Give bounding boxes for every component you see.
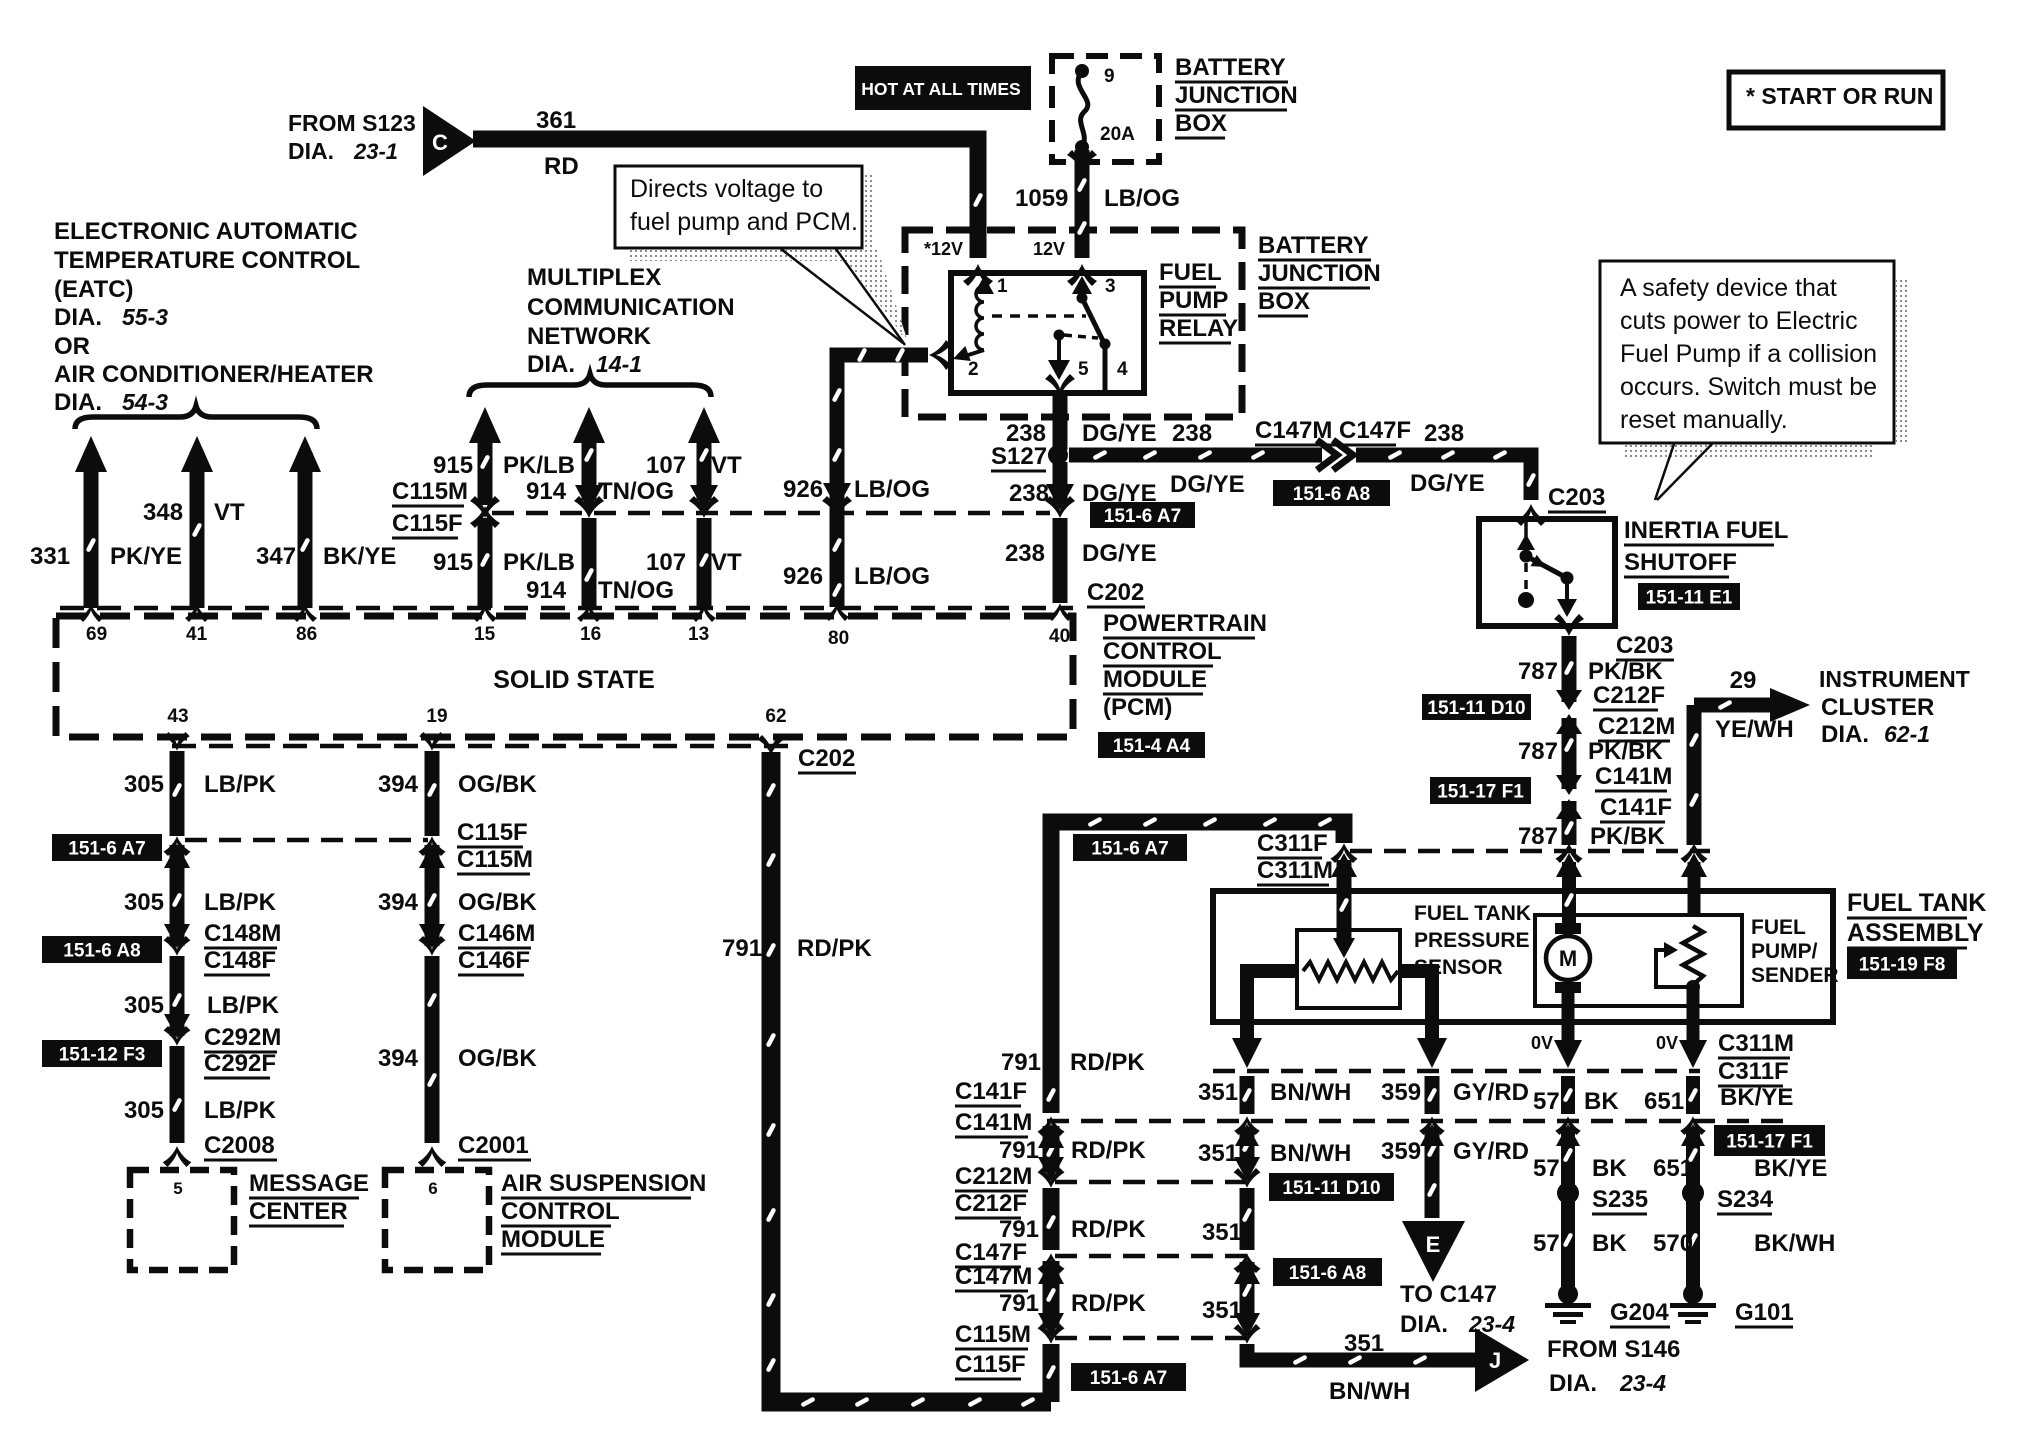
svg-text:0V: 0V [1531, 1033, 1553, 1053]
svg-text:926: 926 [783, 563, 823, 590]
svg-text:J: J [1489, 1348, 1501, 1373]
svg-text:151-6 A8: 151-6 A8 [1289, 1263, 1366, 1284]
svg-text:DG/YE: DG/YE [1410, 470, 1485, 497]
svg-text:151-17 F1: 151-17 F1 [1437, 781, 1524, 802]
svg-text:LB/PK: LB/PK [204, 889, 277, 916]
svg-text:CENTER: CENTER [249, 1198, 348, 1225]
svg-text:BN/WH: BN/WH [1270, 1079, 1351, 1106]
svg-text:BK: BK [1592, 1155, 1627, 1182]
svg-text:16: 16 [580, 624, 601, 645]
svg-text:C203: C203 [1616, 632, 1673, 659]
svg-text:C148M: C148M [204, 920, 281, 947]
svg-text:BK/YE: BK/YE [1720, 1084, 1793, 1111]
svg-text:107: 107 [646, 549, 686, 576]
svg-text:C148F: C148F [204, 947, 276, 974]
svg-text:RD/PK: RD/PK [1070, 1049, 1145, 1076]
svg-text:DIA.: DIA. [54, 389, 102, 416]
svg-text:BK/YE: BK/YE [323, 543, 396, 570]
svg-text:DIA.: DIA. [288, 138, 334, 164]
svg-text:23-4: 23-4 [1619, 1370, 1666, 1396]
svg-text:HOT AT ALL TIMES: HOT AT ALL TIMES [861, 79, 1020, 99]
svg-text:TEMPERATURE CONTROL: TEMPERATURE CONTROL [54, 247, 360, 274]
svg-text:238: 238 [1172, 420, 1212, 447]
svg-text:G204: G204 [1610, 1299, 1669, 1326]
svg-text:FROM S123: FROM S123 [288, 110, 416, 136]
svg-text:C147F: C147F [955, 1239, 1027, 1266]
svg-text:C141F: C141F [955, 1078, 1027, 1105]
svg-text:S127: S127 [991, 443, 1047, 470]
svg-text:C115M: C115M [392, 478, 468, 505]
svg-text:SENDER: SENDER [1751, 964, 1839, 987]
svg-text:C311M: C311M [1257, 857, 1333, 884]
svg-text:fuel pump and PCM.: fuel pump and PCM. [630, 208, 858, 236]
svg-text:S235: S235 [1592, 1186, 1648, 1213]
svg-text:Directs voltage to: Directs voltage to [630, 175, 823, 203]
svg-text:351: 351 [1202, 1297, 1242, 1324]
svg-text:151-11 E1: 151-11 E1 [1646, 587, 1733, 608]
svg-text:LB/OG: LB/OG [1104, 185, 1180, 212]
svg-text:FUEL: FUEL [1159, 259, 1222, 286]
svg-text:1: 1 [997, 276, 1008, 297]
svg-text:BOX: BOX [1258, 288, 1310, 315]
svg-text:359: 359 [1381, 1138, 1421, 1165]
svg-text:DIA.: DIA. [54, 304, 102, 331]
svg-text:DIA.: DIA. [1400, 1311, 1448, 1338]
svg-text:351: 351 [1198, 1140, 1238, 1167]
svg-text:C115F: C115F [457, 819, 528, 846]
svg-text:AIR SUSPENSION: AIR SUSPENSION [501, 1170, 706, 1197]
svg-text:M: M [1559, 946, 1577, 971]
svg-text:VT: VT [711, 549, 742, 576]
svg-text:151-11 D10: 151-11 D10 [1427, 698, 1525, 719]
svg-text:40: 40 [1049, 626, 1070, 647]
svg-text:43: 43 [167, 706, 188, 727]
svg-text:C212F: C212F [955, 1190, 1027, 1217]
svg-text:914: 914 [526, 478, 567, 505]
svg-text:C311F: C311F [1718, 1058, 1789, 1085]
svg-text:BK: BK [1584, 1088, 1619, 1115]
svg-text:PRESSURE: PRESSURE [1414, 929, 1530, 952]
svg-text:80: 80 [828, 628, 849, 649]
svg-text:305: 305 [124, 1097, 164, 1124]
svg-text:cuts power to Electric: cuts power to Electric [1620, 307, 1858, 335]
svg-text:JUNCTION: JUNCTION [1175, 82, 1298, 109]
svg-text:reset manually.: reset manually. [1620, 406, 1788, 434]
svg-text:FUEL TANK: FUEL TANK [1414, 902, 1531, 925]
svg-text:A safety device that: A safety device that [1620, 274, 1837, 302]
svg-text:926: 926 [783, 476, 823, 503]
svg-text:238: 238 [1424, 420, 1464, 447]
svg-text:29: 29 [1730, 667, 1757, 694]
svg-text:C202: C202 [798, 745, 855, 772]
svg-text:62: 62 [765, 706, 786, 727]
svg-text:151-6 A8: 151-6 A8 [1293, 484, 1370, 505]
svg-text:9: 9 [1104, 66, 1115, 87]
svg-text:INSTRUMENT: INSTRUMENT [1819, 666, 1970, 692]
svg-text:JUNCTION: JUNCTION [1258, 260, 1381, 287]
svg-text:C: C [432, 130, 448, 155]
svg-text:DG/YE: DG/YE [1082, 420, 1157, 447]
svg-text:238: 238 [1009, 480, 1049, 507]
svg-text:151-11 D10: 151-11 D10 [1282, 1178, 1380, 1199]
svg-text:FROM S146: FROM S146 [1547, 1336, 1680, 1363]
svg-text:C212M: C212M [1598, 713, 1675, 740]
svg-text:TN/OG: TN/OG [598, 577, 674, 604]
svg-text:C292M: C292M [204, 1024, 281, 1051]
svg-text:15: 15 [474, 624, 496, 645]
svg-text:394: 394 [378, 889, 419, 916]
svg-text:C202: C202 [1087, 579, 1144, 606]
svg-text:PK/YE: PK/YE [110, 543, 182, 570]
svg-text:331: 331 [30, 543, 70, 570]
svg-text:5: 5 [173, 1179, 182, 1198]
svg-text:359: 359 [1381, 1079, 1421, 1106]
svg-text:DIA.: DIA. [1549, 1370, 1597, 1397]
svg-text:BN/WH: BN/WH [1329, 1378, 1410, 1405]
svg-text:62-1: 62-1 [1884, 721, 1930, 747]
svg-text:351: 351 [1202, 1219, 1242, 1246]
svg-text:CONTROL: CONTROL [501, 1198, 620, 1225]
svg-text:C311M: C311M [1718, 1030, 1794, 1057]
svg-text:MODULE: MODULE [501, 1226, 605, 1253]
svg-text:GY/RD: GY/RD [1453, 1138, 1529, 1165]
svg-text:PK/LB: PK/LB [503, 549, 575, 576]
svg-text:RD/PK: RD/PK [1071, 1137, 1146, 1164]
svg-text:PK/BK: PK/BK [1588, 738, 1663, 765]
svg-text:PK/LB: PK/LB [503, 452, 575, 479]
svg-text:394: 394 [378, 1045, 419, 1072]
svg-text:41: 41 [186, 624, 208, 645]
svg-text:305: 305 [124, 771, 164, 798]
svg-text:* START OR RUN: * START OR RUN [1746, 83, 1933, 109]
svg-text:C311F: C311F [1257, 830, 1328, 857]
svg-text:PK/BK: PK/BK [1588, 658, 1663, 685]
svg-text:BK/WH: BK/WH [1754, 1230, 1835, 1257]
svg-text:RELAY: RELAY [1159, 315, 1238, 342]
svg-text:791: 791 [999, 1290, 1039, 1317]
svg-text:787: 787 [1518, 658, 1558, 685]
svg-text:C147M C147F: C147M C147F [1255, 417, 1411, 444]
svg-text:BK/YE: BK/YE [1754, 1155, 1827, 1182]
svg-text:C212M: C212M [955, 1163, 1032, 1190]
svg-text:791: 791 [722, 935, 762, 962]
svg-text:RD: RD [544, 153, 579, 180]
svg-text:LB/PK: LB/PK [204, 1097, 277, 1124]
svg-text:C212F: C212F [1593, 682, 1665, 709]
svg-text:69: 69 [86, 624, 107, 645]
svg-text:RD/PK: RD/PK [1071, 1216, 1146, 1243]
svg-text:TO C147: TO C147 [1400, 1281, 1497, 1308]
svg-text:CONTROL: CONTROL [1103, 638, 1222, 665]
svg-text:6: 6 [428, 1179, 437, 1198]
svg-text:55-3: 55-3 [122, 304, 168, 330]
svg-text:361: 361 [536, 107, 576, 134]
svg-text:RD/PK: RD/PK [797, 935, 872, 962]
svg-text:DIA.: DIA. [1821, 721, 1869, 748]
svg-text:394: 394 [378, 771, 419, 798]
svg-text:12V: 12V [1033, 239, 1065, 259]
svg-text:5: 5 [1078, 359, 1089, 380]
svg-text:305: 305 [124, 992, 164, 1019]
svg-text:C141F: C141F [1600, 794, 1672, 821]
svg-text:OG/BK: OG/BK [458, 771, 537, 798]
svg-text:C141M: C141M [955, 1109, 1032, 1136]
svg-text:C203: C203 [1548, 484, 1605, 511]
svg-text:ELECTRONIC AUTOMATIC: ELECTRONIC AUTOMATIC [54, 218, 358, 245]
svg-text:occurs. Switch must be: occurs. Switch must be [1620, 373, 1877, 401]
svg-text:LB/PK: LB/PK [204, 771, 277, 798]
svg-text:C141M: C141M [1595, 763, 1672, 790]
svg-text:COMMUNICATION: COMMUNICATION [527, 294, 735, 321]
svg-text:OR: OR [54, 333, 90, 360]
svg-text:G101: G101 [1735, 1299, 1794, 1326]
svg-text:57: 57 [1533, 1088, 1560, 1115]
svg-text:651: 651 [1644, 1088, 1684, 1115]
svg-text:151-17 F1: 151-17 F1 [1726, 1131, 1813, 1152]
svg-text:S234: S234 [1717, 1186, 1774, 1213]
svg-text:151-6 A7: 151-6 A7 [68, 838, 145, 859]
svg-text:FUEL TANK: FUEL TANK [1847, 889, 1986, 917]
svg-text:INERTIA FUEL: INERTIA FUEL [1624, 517, 1788, 544]
svg-text:DIA.: DIA. [527, 351, 575, 378]
svg-text:651: 651 [1653, 1155, 1693, 1182]
svg-text:*12V: *12V [924, 239, 963, 259]
svg-text:C115M: C115M [955, 1321, 1031, 1348]
svg-text:LB/PK: LB/PK [207, 992, 280, 1019]
svg-text:C115F: C115F [955, 1351, 1026, 1378]
svg-text:POWERTRAIN: POWERTRAIN [1103, 610, 1267, 637]
svg-text:PK/BK: PK/BK [1590, 823, 1665, 850]
svg-text:C292F: C292F [204, 1050, 276, 1077]
svg-text:(PCM): (PCM) [1103, 694, 1172, 721]
svg-text:MODULE: MODULE [1103, 666, 1207, 693]
svg-text:RD/PK: RD/PK [1071, 1290, 1146, 1317]
svg-text:347: 347 [256, 543, 296, 570]
svg-text:LB/OG: LB/OG [854, 563, 930, 590]
svg-text:4: 4 [1117, 359, 1128, 380]
svg-text:23-4: 23-4 [1468, 1311, 1515, 1337]
svg-text:PUMP/: PUMP/ [1751, 940, 1818, 963]
svg-text:MESSAGE: MESSAGE [249, 1170, 369, 1197]
svg-text:151-6 A8: 151-6 A8 [63, 940, 140, 961]
svg-text:C2001: C2001 [458, 1132, 529, 1159]
svg-text:DG/YE: DG/YE [1082, 480, 1157, 507]
svg-text:OG/BK: OG/BK [458, 1045, 537, 1072]
svg-text:PUMP: PUMP [1159, 287, 1228, 314]
svg-text:151-6 A7: 151-6 A7 [1090, 1368, 1167, 1389]
svg-text:BATTERY: BATTERY [1175, 54, 1286, 81]
svg-text:AIR CONDITIONER/HEATER: AIR CONDITIONER/HEATER [54, 361, 374, 388]
svg-text:TN/OG: TN/OG [598, 478, 674, 505]
svg-text:GY/RD: GY/RD [1453, 1079, 1529, 1106]
svg-text:DG/YE: DG/YE [1082, 540, 1157, 567]
svg-text:2: 2 [968, 359, 979, 380]
svg-text:305: 305 [124, 889, 164, 916]
svg-text:3: 3 [1105, 276, 1116, 297]
svg-text:570: 570 [1653, 1230, 1693, 1257]
svg-text:LB/OG: LB/OG [854, 476, 930, 503]
svg-text:86: 86 [296, 624, 317, 645]
svg-text:0V: 0V [1656, 1033, 1678, 1053]
svg-text:C115F: C115F [392, 510, 463, 537]
svg-text:54-3: 54-3 [122, 389, 168, 415]
svg-text:19: 19 [426, 706, 447, 727]
svg-text:348: 348 [143, 499, 183, 526]
svg-text:787: 787 [1518, 823, 1558, 850]
svg-text:NETWORK: NETWORK [527, 323, 652, 350]
svg-text:151-6 A7: 151-6 A7 [1091, 838, 1168, 859]
svg-text:23-1: 23-1 [353, 139, 398, 164]
svg-text:ASSEMBLY: ASSEMBLY [1847, 919, 1984, 947]
svg-text:C146F: C146F [458, 947, 530, 974]
svg-text:VT: VT [214, 499, 245, 526]
svg-text:107: 107 [646, 452, 686, 479]
svg-text:787: 787 [1518, 738, 1558, 765]
svg-text:SENSOR: SENSOR [1414, 956, 1503, 979]
svg-text:351: 351 [1198, 1079, 1238, 1106]
svg-text:OG/BK: OG/BK [458, 889, 537, 916]
svg-text:915: 915 [433, 549, 473, 576]
svg-text:DG/YE: DG/YE [1170, 471, 1245, 498]
svg-text:151-12 F3: 151-12 F3 [59, 1044, 146, 1065]
svg-text:SHUTOFF: SHUTOFF [1624, 549, 1737, 576]
svg-text:CLUSTER: CLUSTER [1821, 694, 1934, 721]
svg-text:914: 914 [526, 577, 567, 604]
svg-text:(EATC): (EATC) [54, 276, 134, 303]
svg-text:E: E [1426, 1232, 1441, 1257]
svg-text:20A: 20A [1100, 124, 1135, 145]
svg-text:791: 791 [1001, 1049, 1041, 1076]
svg-text:791: 791 [999, 1137, 1039, 1164]
svg-text:915: 915 [433, 452, 473, 479]
svg-text:C146M: C146M [458, 920, 535, 947]
svg-text:14-1: 14-1 [596, 351, 642, 377]
svg-text:1059: 1059 [1015, 185, 1068, 212]
svg-text:Fuel Pump if a collision: Fuel Pump if a collision [1620, 340, 1877, 368]
svg-text:151-4 A4: 151-4 A4 [1113, 736, 1191, 757]
svg-text:351: 351 [1344, 1330, 1384, 1357]
svg-text:BOX: BOX [1175, 110, 1227, 137]
svg-text:13: 13 [688, 624, 709, 645]
svg-text:238: 238 [1005, 540, 1045, 567]
svg-text:VT: VT [711, 452, 742, 479]
svg-text:BN/WH: BN/WH [1270, 1140, 1351, 1167]
svg-text:C2008: C2008 [204, 1132, 275, 1159]
svg-text:57: 57 [1533, 1230, 1560, 1257]
svg-text:151-6 A7: 151-6 A7 [1104, 506, 1181, 527]
svg-text:151-19 F8: 151-19 F8 [1859, 954, 1946, 975]
svg-text:BATTERY: BATTERY [1258, 232, 1369, 259]
svg-text:C115M: C115M [457, 846, 533, 873]
svg-text:SOLID STATE: SOLID STATE [493, 666, 655, 694]
svg-text:BK: BK [1592, 1230, 1627, 1257]
svg-text:FUEL: FUEL [1751, 916, 1806, 939]
svg-text:YE/WH: YE/WH [1715, 716, 1794, 743]
svg-text:C147M: C147M [955, 1263, 1032, 1290]
svg-text:57: 57 [1533, 1155, 1560, 1182]
svg-text:MULTIPLEX: MULTIPLEX [527, 264, 661, 291]
